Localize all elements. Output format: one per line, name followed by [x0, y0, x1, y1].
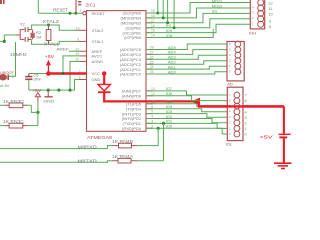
svg-text:AGND: AGND [92, 59, 104, 64]
svg-text:IO0: IO0 [166, 124, 173, 129]
wire PD1 down to RN4A [163, 123, 165, 160]
connector pin UBOOT (cut at left edge) [0, 71, 15, 81]
junction AVCC on red wire [62, 72, 65, 75]
label C6 100n [33, 74, 41, 82]
junction pullup node [36, 111, 39, 114]
wire MOSI branch up [166, 0, 169, 24]
junction R1 to RESET net [74, 12, 77, 15]
wire PB2 net to IOH [146, 19, 258, 28]
IOH inside pin numbers [252, 5, 254, 25]
highlighted +5V wire to VCC pin [48, 72, 86, 74]
IC right side pin names PB [121, 11, 142, 41]
label Y2 [20, 21, 26, 26]
+5V supply arrow (top, highlighted) [45, 54, 55, 73]
wire PD0 down to RN4B [157, 128, 159, 145]
highlighted wire down to diode [103, 74, 105, 85]
svg-text:M8TXD: M8TXD [78, 158, 98, 163]
wire RN3D branch [31, 105, 38, 112]
wire +5V arrow to junction [37, 102, 39, 126]
svg-text:100n: 100n [33, 77, 41, 81]
label 16MHz [10, 52, 27, 57]
svg-text:21: 21 [76, 47, 80, 51]
label AREF [56, 47, 69, 52]
wire PD0 net IO0 to IOL [146, 128, 234, 134]
wire PD7 net IO7 to IOL [146, 91, 234, 95]
wire PD4 net IO4 to IOL [146, 109, 234, 112]
wire PC1 net to AD [146, 66, 235, 69]
wire PD1 net IO1 to IOL [146, 123, 234, 128]
+5V supply arrow (lower, to pullup resistors) [32, 88, 42, 102]
capacitor C6 100n [25, 74, 32, 91]
svg-text:IOL: IOL [226, 142, 233, 147]
svg-text:GND: GND [43, 98, 54, 103]
diode (highlighted) [98, 84, 110, 92]
wire M8RXD net [0, 146, 158, 149]
pin AREF stub and wire [69, 47, 87, 51]
wire PB5 net to IOH [146, 3, 258, 14]
svg-text:XTAL2: XTAL2 [42, 19, 59, 24]
svg-text:(ADC0)PC0: (ADC0)PC0 [120, 72, 142, 77]
label SS on PB2 row [166, 23, 172, 28]
label R2 value 1M [36, 31, 41, 39]
wire PD2 net IO2 to IOL [146, 119, 234, 123]
label IOH [249, 30, 256, 35]
wire PD6 net IO6 to IOL [146, 96, 234, 101]
IOL pin circles [234, 92, 240, 137]
pin name AREF [92, 49, 103, 54]
svg-text:VCC: VCC [92, 71, 101, 76]
connector AD box [227, 42, 244, 81]
wire AGND net [70, 58, 87, 91]
wire RESET net vertical from top [37, 0, 39, 13]
wire GND horizontal net [29, 89, 75, 91]
svg-text:SS: SS [212, 8, 218, 13]
svg-text:AD0: AD0 [168, 69, 177, 74]
pin name XTAL1 [92, 39, 105, 44]
capacitor C top (load cap) [25, 27, 31, 32]
IC right pin numbers PC [150, 46, 154, 75]
wire PB1 net to IOH [146, 24, 258, 32]
label AD [227, 82, 233, 87]
AD inside pin numbers [229, 42, 231, 74]
IC right pin numbers PB [151, 9, 155, 37]
wire PD3 net IO3 to IOL [146, 114, 234, 118]
label MISO (cut at top) [212, 0, 222, 4]
arrowhead on highlighted wire [191, 98, 200, 106]
resistor RN4A 1K [112, 154, 133, 163]
svg-text:XTAL2: XTAL2 [92, 28, 105, 33]
connector IOL box [227, 87, 243, 140]
pin name VCC [92, 71, 101, 76]
pin RESET bubble [79, 9, 86, 15]
junction on GND net [57, 89, 60, 92]
svg-text:20: 20 [76, 52, 80, 56]
junction +5V (red) [46, 71, 51, 76]
label ATMEGA8 [87, 135, 112, 140]
pin name RESET [92, 11, 106, 16]
connector IOH box [250, 0, 264, 29]
svg-text:ot En: ot En [0, 83, 9, 88]
svg-text:>5V: >5V [260, 135, 274, 140]
ground symbol (right, highlighted) [274, 163, 291, 168]
junction at left edge [3, 40, 6, 43]
capacitor C bottom (load cap) [25, 37, 31, 42]
battery >5V symbol [260, 134, 291, 139]
svg-text:1K RN3D: 1K RN3D [3, 99, 24, 104]
pin XTAL1 stub [77, 38, 86, 42]
capacitor pair fork (GND side of load caps) [16, 30, 24, 40]
label M8TXD [78, 158, 98, 163]
svg-text:10: 10 [76, 26, 80, 30]
svg-text:GND: GND [92, 77, 101, 82]
IOL arduino pin numbers 7-0 [245, 93, 248, 137]
svg-text:IOH: IOH [249, 30, 256, 35]
labels AD5-AD0 [168, 45, 177, 75]
label SS [212, 8, 218, 13]
svg-text:1K RN4B: 1K RN4B [112, 139, 133, 144]
wire GND pin 8 net [75, 76, 87, 91]
svg-text:IO8: IO8 [166, 33, 173, 38]
wire PC4 net to AD [146, 50, 235, 55]
redraw highlighted wire over IOL pin5 (on top of circles) [198, 105, 284, 107]
label XTAL2 [42, 19, 59, 24]
wire M8TXD net [0, 161, 164, 163]
crystal cluster: wire from left edge [0, 35, 16, 41]
highlighted wire from diode to IOL [104, 93, 200, 102]
svg-text:RESET: RESET [53, 8, 68, 13]
wire RESET net horizontal to pin 1 [38, 12, 82, 14]
label MOSI [212, 3, 222, 8]
svg-text:1: 1 [79, 9, 81, 13]
svg-text:Y2: Y2 [20, 21, 26, 26]
IOH arduino pin numbers 12-8 [268, 0, 273, 29]
IC ZIC1 ATMEGA8 box [87, 11, 147, 132]
junction on RESET net [69, 12, 72, 15]
label Boot En (cut) [0, 83, 9, 88]
wire +5V to C6 [29, 73, 47, 75]
wire MISO branch up [162, 0, 165, 19]
svg-text:(AIN0)PD6: (AIN0)PD6 [122, 94, 142, 99]
IOL inside pin numbers [229, 93, 231, 136]
wire XTAL2 net [32, 25, 79, 30]
IC right side pin names PD [122, 89, 142, 131]
svg-text:AVCC: AVCC [92, 54, 103, 59]
svg-text:(ICP)PB0: (ICP)PB0 [124, 35, 142, 40]
svg-text:ATMEGA8: ATMEGA8 [87, 135, 112, 140]
svg-text:2: 2 [12, 75, 14, 79]
svg-text:AREF: AREF [56, 47, 69, 52]
svg-text:10: 10 [268, 11, 273, 16]
junction diode tap (red) [102, 71, 106, 75]
svg-text:2: 2 [151, 124, 153, 128]
svg-text:M8RXD: M8RXD [78, 144, 98, 149]
junction PD1 to RN4A [162, 122, 165, 125]
pin name GND [92, 77, 101, 82]
highlighted wire down right side [283, 106, 285, 133]
wire PD5 net IO5 to IOL [146, 104, 234, 106]
wire SS branch up [173, 0, 176, 29]
wire PC3 net to AD [146, 55, 235, 59]
labels IO7-IO0 [166, 86, 173, 128]
svg-text:16MHz: 16MHz [10, 52, 27, 57]
pin name XTAL2 [92, 28, 105, 33]
svg-text:1M: 1M [36, 35, 41, 39]
junction PD0 to RN4B [157, 127, 160, 130]
label IO9 [166, 28, 173, 33]
wire XTAL1 net [32, 39, 79, 44]
IC right pin stubs [146, 13, 153, 128]
svg-text:ZIC1: ZIC1 [86, 2, 96, 7]
wire PB4 net to IOH [146, 8, 258, 18]
IOH pin circles [258, 0, 264, 27]
wire PC5 net to AD [146, 44, 235, 50]
wire PC0 net to AD [146, 72, 235, 74]
svg-text:+5V: +5V [32, 88, 42, 93]
junction GND symbol [47, 89, 50, 92]
svg-text:12: 12 [268, 0, 273, 5]
cropped component label top-left corner [0, 0, 5, 4]
label ZIC1 [86, 2, 96, 7]
pin VCC number 7 [79, 69, 81, 73]
wire SCK branch up [156, 0, 159, 15]
junction R2 top [47, 24, 50, 27]
wire UBOOT net down left side [9, 42, 16, 76]
ground symbol GND [43, 90, 54, 103]
wire PB0 net to IOH [146, 29, 213, 38]
resistor R1 lead (cut off at top) [76, 0, 81, 13]
wire PB3 net to IOH [146, 13, 258, 22]
pin name AGND [92, 59, 104, 64]
svg-text:22: 22 [76, 58, 80, 62]
label IO8 [166, 33, 173, 38]
IC right side pin names PC [120, 47, 142, 76]
svg-text:AD: AD [227, 82, 233, 87]
highlighted wire through IOL pin 5 to right [198, 105, 284, 107]
svg-text:9: 9 [77, 38, 79, 42]
highlighted wire step down to pin row [198, 101, 200, 106]
svg-text:RESET: RESET [92, 11, 106, 16]
svg-text:XTAL1: XTAL1 [92, 39, 105, 44]
pin name AVCC [92, 54, 103, 59]
svg-text:(RXD)PD0: (RXD)PD0 [122, 126, 142, 131]
svg-text:8: 8 [79, 76, 81, 80]
label M8RXD [78, 144, 98, 149]
svg-text:16: 16 [151, 24, 155, 28]
resistor RN3D 1K [0, 99, 31, 108]
junction AGND joins GND net [68, 89, 71, 92]
svg-text:1K RN4A: 1K RN4A [112, 154, 133, 159]
label IOL [226, 142, 233, 147]
crystal Y2 [30, 30, 35, 40]
label XTAL1 [44, 41, 60, 46]
svg-text:IO6: IO6 [166, 91, 173, 96]
svg-text:+5V: +5V [45, 54, 55, 59]
IC right pin numbers PD [151, 87, 155, 128]
wire PC2 net to AD [146, 61, 235, 64]
pin XTAL2 stub [76, 26, 87, 30]
wire battery to ground [283, 138, 285, 162]
AD pin circles [235, 41, 241, 75]
label RESET [53, 8, 68, 13]
resistor RN3C 1K [0, 119, 38, 128]
svg-text:1K RN3C: 1K RN3C [3, 119, 24, 124]
wire AVCC net [63, 52, 87, 72]
resistor R2 1M [46, 25, 51, 44]
resistor RN4B 1K [112, 139, 133, 148]
